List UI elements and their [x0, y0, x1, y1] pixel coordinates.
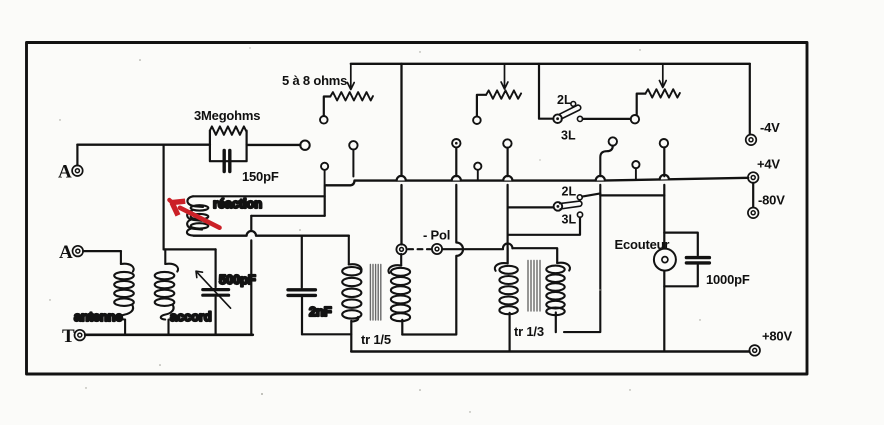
wire top rail down to Pol (long vertical) — [400, 64, 402, 245]
wire +4V to -80V — [752, 183, 754, 207]
wire grid line to 3Megohms box — [77, 143, 210, 145]
wire S2 2L contact to tube3 vertical — [582, 193, 600, 196]
svg-text:1000pF: 1000pF — [706, 272, 750, 287]
svg-text:- Pol: - Pol — [423, 228, 450, 243]
capacitor 1000pF plates — [686, 258, 709, 263]
bus hop at x508 — [503, 176, 512, 181]
wire top rail to switch S1 — [539, 64, 553, 119]
+80V rail — [351, 350, 749, 353]
svg-text:-4V: -4V — [760, 120, 780, 135]
switch S2 contact 2L — [577, 195, 582, 200]
svg-text:accord: accord — [170, 309, 212, 324]
wire grid node to 500pF top — [164, 248, 216, 250]
svg-text:2L: 2L — [557, 93, 572, 107]
wire S1 to P3 — [583, 118, 631, 120]
coil accord — [155, 249, 178, 333]
bus hop at x401 — [397, 176, 406, 181]
svg-text:-80V: -80V — [758, 193, 785, 208]
tube3 filament stem — [635, 168, 637, 180]
node: grid drop vertical to accord — [163, 145, 165, 250]
TR2 primary bottom stem to +80V rail — [509, 313, 511, 350]
svg-text:A: A — [58, 162, 72, 183]
svg-text:+4V: +4V — [757, 157, 780, 172]
P3 input circle — [631, 115, 639, 123]
border frame — [27, 43, 808, 375]
wire box output to tube pin — [247, 144, 301, 146]
terminal T — [75, 330, 86, 341]
tube1 plate pin — [349, 141, 357, 149]
wire 500pF bottom lead — [215, 297, 217, 335]
svg-text:tr 1/5: tr 1/5 — [361, 332, 391, 347]
svg-text:150pF: 150pF — [242, 169, 279, 184]
svg-text:Ecouteur: Ecouteur — [615, 237, 670, 252]
TR1 secondary top stem — [400, 254, 402, 266]
capacitor C 2nF bottom lead — [301, 297, 303, 334]
wire 500pF top lead — [215, 249, 217, 287]
tube2 filament stem — [477, 170, 479, 180]
wire top rail — [351, 63, 750, 65]
terminal -80V — [748, 208, 759, 219]
resistor R 3Megohms (zigzag) — [210, 126, 247, 134]
terminal A2 (antenna) — [73, 246, 84, 257]
capacitor C 500pF plates — [203, 290, 229, 296]
arrow into rheostat P2 — [501, 64, 508, 89]
wire bus left end drop — [325, 185, 327, 216]
wire 2L line to ecouteur vertical — [600, 194, 664, 196]
tube3 plate vertical to ecouteur — [663, 147, 665, 350]
switch S1 lever — [559, 105, 581, 119]
tube3 grid pin — [609, 137, 617, 145]
tube3 plate pin — [660, 139, 668, 147]
P1 wiper circle — [320, 116, 328, 124]
tube2 filament pin — [474, 163, 481, 170]
tube1 grid pin circle — [300, 141, 309, 150]
tube2 grid pin (dotted) — [452, 139, 460, 147]
transformer TR1 primary top stem — [348, 236, 350, 265]
switch S1 contact 3L — [577, 116, 582, 121]
P2 left lead — [477, 95, 486, 116]
rheostat P1 5-8 ohms — [330, 92, 373, 100]
svg-text:2nF: 2nF — [309, 304, 332, 319]
red arrow — [169, 200, 219, 228]
tr2 secondary bottom stem — [555, 313, 557, 333]
capacitor 1000pF top wire — [664, 233, 698, 256]
svg-text:tr 1/3: tr 1/3 — [514, 324, 544, 339]
wire 2nF bottom to tr1 — [302, 333, 351, 335]
svg-text:T: T — [62, 326, 75, 347]
svg-text:+80V: +80V — [762, 329, 792, 344]
wire top rail down to -4V — [749, 64, 751, 134]
capacitor C 150pF plates — [224, 150, 230, 171]
svg-text:A: A — [59, 242, 73, 263]
P3 left lead — [637, 94, 646, 115]
svg-text:3L: 3L — [561, 129, 576, 143]
switch S1 pivot — [553, 114, 562, 123]
wire plate vertical to switch S2 pivot — [508, 206, 554, 208]
P2 wiper circle — [473, 116, 481, 124]
rheostat P2 — [486, 90, 521, 98]
bus hop at x600 — [596, 176, 605, 181]
svg-text:3L: 3L — [562, 213, 577, 227]
bus hop at x664 — [660, 175, 669, 180]
arrow into rheostat P1 — [347, 64, 354, 90]
tr1 secondary bottom stem — [401, 320, 403, 335]
ecouteur symbol — [654, 249, 676, 271]
P1 left lead — [324, 97, 331, 116]
terminal +80V — [749, 345, 760, 356]
svg-text:2L: 2L — [562, 185, 577, 199]
speckles — [49, 47, 700, 412]
filament bus — [326, 178, 748, 186]
wire T ground line — [85, 333, 253, 336]
transformer TR2 primary coil — [495, 263, 518, 314]
switch S2 pivot — [554, 202, 563, 211]
transformer TR2 primary top stem — [507, 248, 509, 263]
svg-text:réaction: réaction — [213, 196, 262, 211]
dashed link between Pol terminals — [408, 248, 430, 250]
wire 3L tap (to S2 contact) — [508, 217, 580, 235]
transformer TR1 primary coil — [342, 264, 361, 321]
wire A1 up to grid line — [76, 145, 78, 166]
terminal +4V — [748, 172, 759, 183]
box around R / 150pF — [210, 131, 247, 162]
switch S1 contact 2L — [571, 102, 576, 107]
coil réaction (horizontal) — [187, 196, 325, 235]
capacitor C 2nF plates — [288, 290, 315, 296]
tube3 filament pin — [632, 161, 639, 168]
hop of Pol wire over x508 — [503, 243, 512, 248]
TR2 core — [528, 261, 540, 312]
rheostat P3 — [645, 89, 680, 97]
svg-text:3Megohms: 3Megohms — [194, 108, 260, 123]
Pol terminal right — [432, 244, 442, 254]
wire filament return horizontal — [251, 215, 324, 217]
TR1 primary bottom stem to +80V rail — [350, 321, 352, 352]
coil antenne — [114, 251, 134, 333]
bus hop at x456 — [452, 176, 461, 181]
tube1 pin stem — [324, 170, 326, 185]
arrow into rheostat P3 — [659, 64, 666, 88]
tube1 plate stem — [352, 150, 354, 177]
capacitor C 2nF top lead — [301, 236, 303, 288]
wire filament return vertical — [250, 216, 252, 334]
wire A2 to antenna coil — [83, 250, 121, 252]
switch S2 lever — [560, 201, 582, 209]
tube2 plate pin — [503, 139, 511, 147]
svg-text:5 à 8 ohms: 5 à 8 ohms — [282, 73, 347, 88]
capacitor 1000pF bottom wire — [664, 265, 698, 286]
terminal A1 (grid input) — [72, 165, 83, 176]
svg-text:antenne: antenne — [74, 309, 122, 324]
variable arrow over 500pF — [196, 271, 231, 308]
tube2 grid vertical (to tr1 secondary return) — [402, 148, 463, 335]
tube2 plate vertical to tr2 primary — [507, 148, 509, 264]
tube3 grid stem curve + vertical to tr2 secondary return — [564, 146, 613, 332]
TR1 core — [370, 265, 380, 321]
transformer TR1 secondary coil — [388, 265, 410, 321]
tube1 filament pin — [321, 163, 328, 170]
wire Pol to tr2 grid (y 248) — [442, 248, 557, 263]
transformer TR2 secondary coil — [546, 263, 570, 315]
Pol terminal left — [396, 244, 406, 254]
wire réaction bottom to tr1 primary — [194, 231, 349, 236]
terminal -4V — [746, 135, 757, 146]
switch S2 contact 3L — [577, 212, 582, 217]
